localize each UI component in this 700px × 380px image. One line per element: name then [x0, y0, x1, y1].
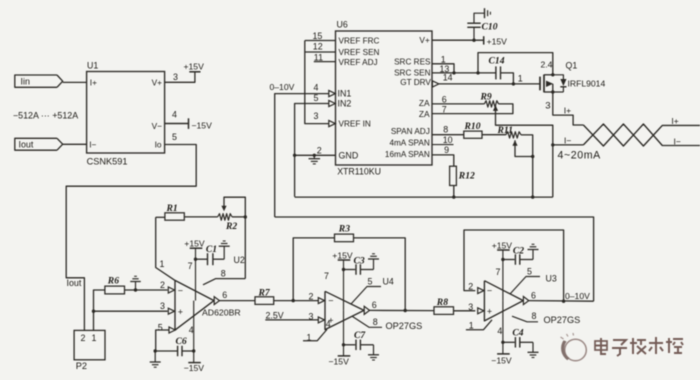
label I- left — [564, 135, 571, 145]
svg-text:C7: C7 — [354, 330, 366, 341]
wire SPAN ADJ to R10 — [432, 134, 464, 136]
svg-text:7: 7 — [324, 271, 329, 281]
wire U2 pin4 to -15V — [193, 301, 195, 363]
svg-text:C10: C10 — [482, 22, 498, 33]
svg-text:0–10V: 0–10V — [270, 82, 295, 92]
svg-text:1: 1 — [518, 74, 523, 84]
wire U4 pin4 to -15V — [343, 310, 345, 356]
svg-text:I−: I− — [674, 136, 681, 146]
capacitor C6 — [155, 336, 194, 356]
ground at C4 — [528, 342, 539, 357]
+15V supply U3 — [492, 240, 513, 250]
wire R7 to U4 pin2 — [274, 300, 319, 302]
label 2.5V — [266, 310, 284, 320]
resistor R11 trimmer — [497, 125, 522, 138]
pin 3 label U2 — [160, 301, 165, 311]
wire pin 15 VREF FRC — [305, 40, 336, 42]
U2 label — [234, 255, 245, 265]
svg-text:11: 11 — [314, 52, 323, 62]
svg-text:I+: I+ — [564, 106, 571, 116]
ground at C3 — [368, 254, 379, 270]
wire IN1 from 0-10V rail — [275, 94, 329, 217]
connector P2 — [74, 330, 105, 371]
capacitor C3 — [344, 255, 374, 274]
svg-text:V+: V+ — [152, 78, 163, 88]
svg-text:SRC RES: SRC RES — [394, 57, 431, 66]
wire U2 out to R7 — [220, 300, 256, 302]
pin 3 label U6 — [314, 111, 319, 121]
svg-text:4: 4 — [314, 83, 319, 93]
svg-text:R6: R6 — [107, 276, 119, 287]
label I- right — [674, 136, 681, 146]
U6 right pin names — [385, 35, 432, 159]
IN2 input arrow — [329, 100, 336, 106]
wire Q1 to loop I+ — [553, 92, 584, 125]
svg-text:SRC SEN: SRC SEN — [394, 68, 430, 77]
GT DRV output arrow — [432, 81, 439, 87]
pin 1 label U2 — [160, 259, 165, 269]
pin 4 label U1 — [172, 109, 177, 119]
wire U3 pin4 to -15V — [502, 301, 504, 354]
svg-text:GT DRV: GT DRV — [400, 78, 431, 87]
svg-text:Iin: Iin — [21, 77, 30, 87]
junction C6 / pin4 stem — [192, 349, 195, 352]
U4 pin8 line — [353, 317, 423, 332]
svg-text:OP27GS: OP27GS — [544, 315, 581, 325]
junction U3 feedback — [562, 300, 565, 303]
wire U1 V- to -15V — [165, 123, 189, 125]
wire ZA pin 6 to R9 — [432, 103, 484, 105]
wire to U2 pin3 — [94, 310, 168, 312]
op-amp U3 OP27GS — [478, 281, 536, 321]
svg-text:+15V: +15V — [487, 36, 508, 46]
svg-text:10: 10 — [443, 135, 453, 145]
junction C14 / gate wire — [512, 82, 515, 85]
wire pin 12 VREF SEN — [305, 51, 336, 53]
junction C2 tee — [501, 258, 504, 261]
resistor R6 — [105, 276, 125, 294]
wire P2 pin 1 riser — [94, 290, 105, 330]
junction C10 stem — [472, 39, 475, 42]
wire pin 11 VREF ADJ stub — [314, 61, 336, 63]
svg-text:3: 3 — [314, 111, 319, 121]
pin 4 label U2 — [189, 325, 194, 335]
svg-text:−: − — [328, 296, 333, 306]
svg-text:R2: R2 — [225, 221, 237, 232]
pin 5 label U1 — [172, 132, 177, 142]
wire R12 to rail — [453, 186, 455, 198]
pin 4 label U4 — [326, 319, 331, 329]
wire R1 to R2 — [184, 216, 217, 218]
svg-text:2.4: 2.4 — [541, 60, 553, 70]
svg-text:I+: I+ — [90, 78, 97, 88]
svg-text:Io: Io — [155, 140, 162, 150]
svg-text:+15V: +15V — [184, 239, 205, 249]
U4 pin5 line — [351, 276, 394, 304]
svg-text:6: 6 — [442, 94, 447, 104]
svg-text:1: 1 — [92, 333, 97, 343]
svg-text:15: 15 — [313, 31, 323, 41]
svg-text:0–10V: 0–10V — [565, 291, 590, 301]
svg-text:−: − — [178, 285, 183, 295]
svg-text:2: 2 — [160, 280, 165, 290]
svg-text:4: 4 — [189, 325, 194, 335]
R9 wiper to I- node — [493, 105, 553, 197]
wire I- to loop — [553, 144, 584, 146]
svg-text:−: − — [487, 286, 492, 296]
svg-text:14: 14 — [443, 72, 453, 82]
wire U1 V+ to +15V — [165, 72, 195, 83]
pin 14 label — [443, 72, 453, 82]
svg-text:2: 2 — [309, 291, 314, 301]
svg-text:3: 3 — [468, 302, 473, 312]
wire +15V stem U3 — [502, 250, 504, 301]
pin 3 label U1 — [173, 72, 178, 82]
svg-text:8: 8 — [373, 317, 378, 327]
U6 XTR110KU box — [336, 20, 433, 177]
svg-text:C2: C2 — [513, 245, 524, 256]
resistor R3 feedback — [293, 223, 405, 310]
wire R9 to ZA pin 7 loop — [432, 104, 513, 114]
wire IN2 to common bus — [295, 104, 329, 197]
pin 1 label U3 — [469, 321, 474, 331]
pin 11 label — [314, 52, 323, 62]
wire U2 pin1 gain — [156, 217, 175, 280]
svg-text:5: 5 — [172, 132, 177, 142]
wire SRC SEN pin 13 — [432, 72, 496, 74]
pin 5 label U2 — [158, 322, 163, 332]
svg-text:12: 12 — [313, 42, 323, 52]
pin 2 label U6 — [317, 145, 322, 155]
resistor R10 — [464, 121, 483, 138]
wire SRC RES pin 1 — [432, 64, 454, 73]
R11 end loop down to rail — [521, 135, 533, 197]
svg-text:C1: C1 — [206, 244, 217, 255]
junction GND / ground stem — [313, 154, 316, 157]
junction R11 wiper/end — [531, 155, 534, 158]
junction R12 on rail — [452, 195, 455, 198]
svg-text:P2: P2 — [76, 361, 87, 371]
pin 7 label U3 — [496, 267, 501, 277]
svg-text:U3: U3 — [546, 273, 557, 283]
U2 pin5 input buffer — [156, 327, 176, 351]
svg-text:C4: C4 — [512, 327, 523, 338]
pin 2 label U4 — [309, 291, 314, 301]
junction R3 right — [404, 309, 407, 312]
resistor R9 — [480, 92, 499, 108]
svg-text:1: 1 — [160, 259, 165, 269]
transistor Q1 IRFL9014 — [540, 60, 605, 93]
junction Q1 drain top — [551, 73, 554, 76]
svg-text:OP27GS: OP27GS — [386, 321, 423, 331]
label 0-10V input — [270, 82, 295, 92]
svg-text:9: 9 — [444, 145, 449, 155]
svg-text:C3: C3 — [354, 255, 365, 266]
svg-text:3: 3 — [173, 72, 178, 82]
svg-text:16mA SPAN: 16mA SPAN — [385, 150, 430, 159]
pin 13 label — [440, 64, 450, 74]
svg-text:VREF IN: VREF IN — [339, 120, 371, 129]
wire GND pin 2 — [295, 154, 336, 156]
wire U2 pin8 gain — [203, 279, 245, 285]
U1 CSNK591 box — [87, 61, 165, 167]
svg-text:+: + — [487, 306, 492, 316]
svg-text:AD620BR: AD620BR — [202, 308, 241, 318]
wire 4mA SPAN stub — [432, 144, 454, 146]
trimmer R2 — [218, 214, 238, 232]
label current range — [13, 110, 78, 120]
+15V supply U6 — [484, 36, 507, 46]
svg-text:R9: R9 — [480, 92, 492, 103]
resistor R12 — [450, 166, 475, 185]
common return rail — [295, 196, 553, 198]
svg-text:8: 8 — [221, 268, 226, 278]
svg-text:4: 4 — [326, 319, 331, 329]
svg-text:Iout: Iout — [67, 278, 82, 288]
svg-text:U1: U1 — [87, 61, 98, 71]
junction Q1 source bottom — [551, 90, 554, 93]
ground at C2 — [528, 244, 539, 259]
label 0-10V output — [565, 291, 590, 301]
svg-text:+: + — [178, 307, 183, 317]
svg-text:U6: U6 — [337, 20, 348, 30]
pin 1 label U4 — [307, 332, 312, 342]
svg-text:2: 2 — [81, 333, 86, 343]
junction ground tap — [134, 288, 137, 291]
VREF IN input arrow — [329, 121, 336, 127]
U6 left pin names — [338, 37, 380, 161]
svg-text:+15V: +15V — [332, 250, 353, 260]
svg-text:5: 5 — [158, 322, 163, 332]
wire U2 pin5 to ground — [150, 349, 161, 367]
capacitor C1 — [196, 244, 225, 265]
svg-text:ZA: ZA — [419, 109, 430, 119]
pin 8 label SPAN ADJ — [443, 125, 448, 135]
svg-text:CSNK591: CSNK591 — [87, 156, 128, 166]
svg-text:IN2: IN2 — [338, 98, 352, 108]
junction P2 riser / pin3 wire — [92, 310, 95, 313]
svg-text:4: 4 — [172, 109, 177, 119]
U3 feedback loop — [464, 230, 564, 301]
-15V supply U3 — [491, 354, 512, 365]
label I+ left — [564, 106, 571, 116]
resistor R1 — [156, 203, 185, 220]
wire +15V stem U2 — [195, 248, 197, 300]
junction C1 tee — [194, 258, 197, 261]
pin 10 label — [443, 135, 453, 145]
pin 5 label U6 — [314, 93, 319, 103]
svg-text:VREF ADJ: VREF ADJ — [339, 58, 378, 67]
svg-text:C14: C14 — [489, 55, 505, 66]
pin 4 label U6 — [314, 83, 319, 93]
svg-text:ZA: ZA — [419, 98, 430, 108]
svg-text:U4: U4 — [383, 276, 394, 286]
junction R11 on rail — [531, 195, 534, 198]
svg-text:8: 8 — [532, 311, 537, 321]
svg-text:7: 7 — [496, 267, 501, 277]
junction C7 tee — [342, 343, 345, 346]
wire U1 Io to P2 pin 2 — [66, 145, 196, 331]
U3 pin1 stub — [466, 320, 492, 330]
svg-text:−15V: −15V — [491, 355, 512, 365]
svg-text:R8: R8 — [436, 297, 448, 308]
svg-text:−15V: −15V — [184, 363, 205, 373]
svg-text:R11: R11 — [497, 125, 513, 136]
wire 2.5V to U4 pin3 — [265, 319, 318, 321]
pin 7 label ZA — [442, 105, 447, 115]
+15V supply U2 — [184, 239, 205, 249]
vref bus vertical to VREF IN — [305, 41, 329, 124]
wire Iin to U1 I+ — [63, 81, 87, 83]
U4 pin1 stub — [303, 329, 327, 340]
pin 7 label U4 — [324, 271, 329, 281]
svg-text:IRFL9014: IRFL9014 — [568, 79, 606, 89]
svg-text:3: 3 — [160, 301, 165, 311]
ground at C1 — [219, 241, 230, 259]
wire U3 output — [529, 300, 594, 303]
wire GT DRV to Q1 gate — [439, 83, 540, 85]
label I+ right — [671, 116, 678, 126]
svg-text:1: 1 — [441, 54, 446, 64]
svg-text:VREF FRC: VREF FRC — [339, 37, 380, 46]
pin 3 label Q1 — [545, 101, 550, 112]
svg-text:4~20mA: 4~20mA — [558, 149, 602, 161]
watermark text dianzijishukong — [595, 337, 683, 356]
svg-text:3: 3 — [545, 101, 550, 112]
capacitor C10 — [467, 13, 497, 40]
svg-text:8: 8 — [443, 125, 448, 135]
svg-text:V−: V− — [152, 121, 163, 131]
twisted pair 4-20mA loop — [583, 124, 700, 146]
pin 2 label U3 — [468, 282, 473, 292]
wire +15V stem U4 — [343, 260, 345, 310]
pin 3 label U4 — [309, 312, 314, 322]
svg-text:−512A ··· +512A: −512A ··· +512A — [13, 110, 78, 120]
wire Iout to U1 I- — [63, 143, 87, 145]
port Iin — [15, 75, 63, 87]
port Iout — [15, 138, 63, 150]
svg-text:I+: I+ — [671, 116, 678, 126]
feedback rail 0-10V — [275, 217, 594, 301]
junction C3 tee — [342, 268, 345, 271]
svg-text:XTR110KU: XTR110KU — [337, 166, 381, 176]
ground at R6 node — [130, 276, 141, 290]
junction I- tee — [551, 143, 554, 146]
svg-text:Q1: Q1 — [566, 60, 578, 70]
Q1 body diode — [553, 75, 567, 92]
wire R8 to U3 pin3 — [454, 310, 476, 312]
capacitor C7 — [344, 330, 374, 350]
pin 8 label U2 — [221, 268, 226, 278]
-15V supply U1 — [189, 118, 213, 130]
+15V supply U1 — [184, 61, 205, 72]
wire C14 to gate drive — [501, 73, 514, 84]
svg-text:Iout: Iout — [19, 140, 34, 150]
R11 wiper — [512, 140, 532, 156]
resistor R8 — [434, 297, 454, 314]
svg-text:R10: R10 — [464, 121, 481, 132]
resistor R7 — [255, 287, 274, 304]
svg-text:R3: R3 — [338, 223, 350, 234]
capacitor C4 — [503, 327, 533, 347]
svg-text:4mA SPAN: 4mA SPAN — [389, 139, 429, 148]
svg-text:−15V: −15V — [329, 357, 350, 367]
-15V supply U4 — [329, 356, 351, 367]
svg-text:IN1: IN1 — [338, 88, 352, 98]
-15V supply U2 — [184, 363, 205, 373]
label 4-20mA — [558, 149, 602, 161]
svg-text:R7: R7 — [258, 287, 271, 298]
U3 pin5 line — [510, 266, 557, 294]
svg-text:I−: I− — [564, 135, 571, 145]
svg-text:7: 7 — [188, 261, 193, 271]
ground at C7 — [368, 345, 379, 360]
junction SRC SEN riser — [476, 71, 479, 74]
label Iout node — [67, 278, 82, 288]
junction R3 left — [292, 299, 295, 302]
watermark logo icon — [561, 333, 587, 361]
pin 6 label ZA — [442, 94, 447, 104]
junction pin1/pin13 — [452, 71, 455, 74]
R2 right end — [232, 215, 247, 218]
svg-text:I−: I− — [89, 140, 96, 150]
svg-text:GND: GND — [339, 150, 359, 160]
capacitor C2 — [503, 245, 533, 264]
junction GND / common bus — [293, 154, 296, 157]
wire 16mA SPAN to R12 — [432, 155, 454, 166]
U3 pin8 line — [512, 311, 580, 325]
pin 3 label U3 — [468, 302, 473, 312]
svg-text:5: 5 — [527, 266, 532, 276]
svg-text:2.5V: 2.5V — [266, 310, 284, 320]
svg-text:R1: R1 — [166, 203, 178, 214]
svg-text:U2: U2 — [234, 255, 245, 265]
wire V+ pin to +15V — [432, 39, 484, 41]
pin 2 label U2 — [160, 280, 165, 290]
op-amp U2 AD620BR — [168, 280, 240, 330]
ground at U6 GND — [309, 155, 321, 164]
junction C4 tee — [501, 341, 504, 344]
svg-text:3: 3 — [309, 312, 314, 322]
svg-text:4: 4 — [497, 326, 502, 336]
capacitor C14 — [489, 55, 505, 79]
wire SRC SEN over to Q1 source — [478, 53, 553, 74]
R2 wiper loop — [221, 197, 245, 278]
svg-text:+15V: +15V — [492, 240, 513, 250]
pin 7 label U2 — [188, 261, 193, 271]
svg-text:VREF SEN: VREF SEN — [339, 48, 380, 57]
+15V supply U4 — [332, 250, 353, 260]
op-amp U4 OP27GS — [318, 291, 377, 329]
pin 15 label — [313, 31, 323, 41]
svg-text:+15V: +15V — [184, 61, 205, 71]
svg-text:6: 6 — [222, 290, 227, 300]
wire R6 to U2 pin2 — [125, 289, 168, 291]
svg-text:5: 5 — [314, 93, 319, 103]
pin 12 label — [313, 42, 323, 52]
wire U4 out to R8 — [370, 309, 434, 311]
svg-text:−15V: −15V — [192, 121, 213, 131]
svg-text:R12: R12 — [458, 171, 475, 182]
pin 1 label U6 right — [441, 54, 446, 64]
IN1 input arrow — [329, 91, 336, 97]
pin 4 label U3 — [497, 326, 502, 336]
svg-text:6: 6 — [531, 290, 536, 300]
pin 9 label — [444, 145, 449, 155]
svg-text:2: 2 — [317, 145, 322, 155]
pin 1 label Q1 gate — [518, 74, 523, 84]
ground at C10 — [485, 8, 491, 18]
